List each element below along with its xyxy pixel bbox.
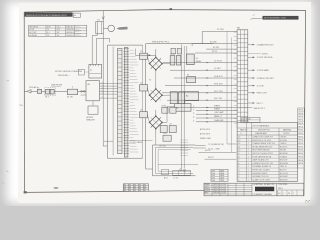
input power plug P1 xyxy=(27,90,31,94)
svg-text:5-12-66: 5-12-66 xyxy=(221,188,226,190)
svg-text:MS25036-1: MS25036-1 xyxy=(67,29,75,31)
bridge rectifier CR2 xyxy=(150,89,163,102)
svg-text:1: 1 xyxy=(248,160,249,162)
svg-text:-.2: -.2 xyxy=(253,15,255,17)
wire to TB1 xyxy=(174,77,237,79)
fuse F2 xyxy=(37,89,41,93)
svg-text:C2: C2 xyxy=(140,83,142,85)
svg-text:-5: -5 xyxy=(238,166,240,168)
reference designation table xyxy=(29,25,87,36)
wires inter xyxy=(135,49,137,56)
svg-text:MIL: MIL xyxy=(129,186,132,188)
TB1 stub xyxy=(248,69,253,71)
resistor block R1 xyxy=(187,77,196,83)
TB1 left stubs xyxy=(234,31,238,33)
svg-text:SIG COM: SIG COM xyxy=(214,98,222,100)
svg-text:PH C 115V: PH C 115V xyxy=(214,91,224,93)
svg-text:J1 MAIN PWR 115V: J1 MAIN PWR 115V xyxy=(257,44,275,47)
svg-text:DC PLUS: DC PLUS xyxy=(214,61,223,63)
svg-text:J2 SERVO 28V RET: J2 SERVO 28V RET xyxy=(257,78,275,80)
relay K1 xyxy=(187,54,195,65)
svg-text:J1 PH B MAIN: J1 PH B MAIN xyxy=(257,69,270,72)
enclosure B bottom lines xyxy=(146,168,153,170)
pin xyxy=(100,93,118,95)
inspection stamp block xyxy=(123,184,149,192)
wire to TB1 xyxy=(196,110,237,112)
svg-text:MIL: MIL xyxy=(144,186,147,188)
lower component cluster xyxy=(162,107,168,113)
svg-text:NOTES: UNLESS OTHERWISE: NOTES: UNLESS OTHERWISE xyxy=(55,71,83,73)
border tick xyxy=(170,8,173,10)
svg-text:FL1: FL1 xyxy=(46,97,49,99)
svg-text:SIZE D: SIZE D xyxy=(278,188,284,190)
stub y53.5 xyxy=(248,53,261,55)
svg-text:1N1184: 1N1184 xyxy=(280,150,286,152)
svg-text:1: 1 xyxy=(248,137,249,139)
svg-text:NOTE ASSEMBLY DWG: NOTE ASSEMBLY DWG xyxy=(264,17,286,20)
svg-text:MIL: MIL xyxy=(134,186,137,188)
pin xyxy=(100,85,118,87)
svg-text:P1 115V: P1 115V xyxy=(217,29,225,31)
svg-text:MIL: MIL xyxy=(124,186,127,188)
svg-text:5-12-66: 5-12-66 xyxy=(221,186,226,188)
svg-text:7-7: 7-7 xyxy=(305,199,310,203)
margin tick xyxy=(20,104,23,106)
terminal strip TB1 xyxy=(237,30,248,127)
svg-text:NO PER: NO PER xyxy=(242,121,249,123)
small cells row xyxy=(161,170,168,175)
svg-text:PWR CONT: PWR CONT xyxy=(257,93,268,95)
svg-text:1: 1 xyxy=(248,179,249,181)
svg-text:A7TB1 NO 6: A7TB1 NO 6 xyxy=(200,128,210,131)
module A4 xyxy=(170,92,177,104)
svg-text:R3 R4: R3 R4 xyxy=(162,105,167,107)
pin xyxy=(100,90,118,92)
smudge xyxy=(54,187,59,188)
svg-text:E1 GND: E1 GND xyxy=(210,41,217,43)
svg-text:-14: -14 xyxy=(238,137,240,139)
bottom module nested box outer xyxy=(153,145,196,176)
svg-text:SH: SH xyxy=(278,193,280,195)
svg-text:MIL: MIL xyxy=(134,188,137,190)
bridge rectifier CR3 xyxy=(150,116,163,129)
svg-text:A7 OSC: A7 OSC xyxy=(160,145,167,148)
svg-text:1: 1 xyxy=(248,150,249,152)
bus wires xyxy=(181,45,183,169)
pin xyxy=(100,88,118,90)
svg-text:1: 1 xyxy=(248,176,249,178)
svg-text:MATERIAL: MATERIAL xyxy=(283,129,291,132)
top-left classification banner xyxy=(25,12,73,16)
svg-text:DC RET: DC RET xyxy=(214,68,222,70)
sheet paper xyxy=(18,2,311,203)
svg-text:MIL: MIL xyxy=(139,186,142,188)
svg-text:GROMMET NYLON: GROMMET NYLON xyxy=(252,176,269,178)
left pins xyxy=(81,90,87,92)
svg-text:xx: xx xyxy=(74,15,76,17)
svg-text:TB20-10: TB20-10 xyxy=(280,166,287,168)
wire top CR3 xyxy=(155,110,157,116)
svg-text:MS24171: MS24171 xyxy=(280,146,288,148)
strip bottom exit wire xyxy=(104,140,113,142)
svg-text:A5: A5 xyxy=(186,95,188,98)
svg-text:1: 1 xyxy=(248,156,249,158)
nested box mid xyxy=(156,147,194,173)
aux relay K2 (dashed) xyxy=(78,69,84,75)
svg-text:MIL: MIL xyxy=(124,188,127,190)
svg-text:-13: -13 xyxy=(238,140,240,142)
svg-text:STRESS: STRESS xyxy=(204,188,210,190)
regulator A1 xyxy=(86,81,100,101)
wire input xyxy=(31,90,86,92)
wire to TB1 xyxy=(163,62,237,64)
wire to TB1 xyxy=(196,117,237,119)
lower-left module A2 xyxy=(88,106,98,114)
long wire x103 xyxy=(102,34,104,146)
svg-text:CODE 94580: CODE 94580 xyxy=(278,184,288,186)
svg-text:MIL: MIL xyxy=(134,184,137,186)
wire bottom CR3 xyxy=(155,129,157,134)
svg-text:MS21919: MS21919 xyxy=(280,179,288,181)
wire to TB1 xyxy=(162,92,237,94)
svg-text:NOTE 2: NOTE 2 xyxy=(262,54,268,56)
wire xyxy=(147,115,149,123)
svg-text:-1: -1 xyxy=(238,179,240,181)
inner enclosure line xyxy=(112,47,114,156)
svg-text:MS3106B: MS3106B xyxy=(75,35,81,37)
svg-text:+28V LAMP: +28V LAMP xyxy=(214,111,224,114)
wire xyxy=(147,57,149,64)
svg-text:-4: -4 xyxy=(238,170,240,172)
wire to TB1 xyxy=(196,121,237,123)
svg-text:CP41B1: CP41B1 xyxy=(280,137,287,139)
svg-text:SPARE: SPARE xyxy=(214,104,221,107)
svg-text:MIL: MIL xyxy=(144,188,147,190)
blower motor B1 xyxy=(108,25,115,32)
module A5 xyxy=(185,92,199,101)
black drawing-number cell xyxy=(255,187,274,192)
svg-text:1: 1 xyxy=(248,153,249,155)
svg-text:PANEL LT: PANEL LT xyxy=(214,115,223,118)
svg-text:C3: C3 xyxy=(140,110,142,112)
bridge rectifier CR1 xyxy=(150,57,163,70)
enclosure A right edge xyxy=(142,45,144,158)
svg-text:CHECK: CHECK xyxy=(204,186,209,188)
svg-text:SWITCH TOGGLE DPST: SWITCH TOGGLE DPST xyxy=(252,153,273,155)
nested box inner xyxy=(158,150,191,172)
svg-text:-3: -3 xyxy=(238,173,240,175)
svg-text:DESCRIPTION: DESCRIPTION xyxy=(258,130,270,132)
svg-text:-6: -6 xyxy=(238,163,240,165)
revision strip xyxy=(298,108,304,168)
TB1 stub xyxy=(248,56,253,58)
fuse F1 box xyxy=(96,22,104,34)
cap C1 xyxy=(140,53,148,59)
svg-text:SCHEMATIC DIAGRAM: SCHEMATIC DIAGRAM xyxy=(254,193,273,196)
svg-text:OF: OF xyxy=(288,193,290,195)
long risers left of TB1 xyxy=(226,31,228,144)
riser stubs for wire rows xyxy=(193,105,195,107)
svg-text:MS3102-8: MS3102-8 xyxy=(67,35,74,37)
svg-text:-7: -7 xyxy=(238,160,240,162)
svg-text:MIL: MIL xyxy=(139,188,142,190)
wire top CR1 xyxy=(155,49,157,57)
svg-text:P/O W1 CABLE: P/O W1 CABLE xyxy=(130,141,143,144)
svg-text:MS25237: MS25237 xyxy=(280,160,288,162)
svg-text:5-12-66: 5-12-66 xyxy=(221,191,226,193)
svg-text:-9: -9 xyxy=(238,153,240,155)
svg-text:MS35058: MS35058 xyxy=(280,153,288,155)
svg-text:J.WILSON: J.WILSON xyxy=(213,186,220,188)
terminal strip TB3 (dense) xyxy=(124,48,128,158)
svg-text:F02B250: F02B250 xyxy=(280,156,287,158)
svg-text:J.WILSON: J.WILSON xyxy=(213,191,220,193)
svg-text:M22759: M22759 xyxy=(280,170,287,172)
svg-text:C1: C1 xyxy=(140,51,142,53)
svg-text:1: 1 xyxy=(248,140,249,142)
svg-text:RECTIFIER BRIDGE: RECTIFIER BRIDGE xyxy=(252,150,270,152)
svg-text:C4 C5: C4 C5 xyxy=(170,53,175,55)
svg-text:VOLT: VOLT xyxy=(57,26,61,28)
svg-text:T-1: T-1 xyxy=(47,29,49,31)
svg-text:W3 P4: W3 P4 xyxy=(208,157,213,159)
svg-text:BRACKET: BRACKET xyxy=(87,119,96,122)
svg-text:TO J4 (SEE NOTE): TO J4 (SEE NOTE) xyxy=(208,144,224,146)
svg-text:F2: F2 xyxy=(37,87,39,89)
svg-text:-11: -11 xyxy=(238,146,240,148)
wire strip to CR1 xyxy=(136,54,156,56)
corner mark xyxy=(24,191,27,193)
svg-text:-8: -8 xyxy=(238,156,240,158)
svg-text:J.WILSON: J.WILSON xyxy=(213,188,220,190)
pin xyxy=(100,97,118,99)
enclosure box B xyxy=(146,44,214,169)
border frame xyxy=(24,10,305,13)
svg-text:J.WILSON: J.WILSON xyxy=(213,184,220,186)
terminal strip TB2 xyxy=(118,49,123,154)
svg-text:5-12-66: 5-12-66 xyxy=(221,193,226,195)
enclosure box A xyxy=(107,45,142,158)
svg-text:C7: C7 xyxy=(160,123,162,125)
svg-text:MIL: MIL xyxy=(139,184,142,186)
svg-text:MIL: MIL xyxy=(129,184,132,186)
svg-text:K-1: K-1 xyxy=(47,32,50,34)
title block xyxy=(204,183,304,196)
svg-text:QTY REQD: QTY REQD xyxy=(242,118,251,120)
transformer T1 xyxy=(89,64,102,78)
arrow label to motor xyxy=(117,27,128,30)
svg-text:S1 ON: S1 ON xyxy=(67,97,73,99)
svg-text:CHASSIS ASSY: CHASSIS ASSY xyxy=(255,132,268,135)
svg-text:SHIELD GND: SHIELD GND xyxy=(200,138,212,140)
svg-text:PWR SUPPLY PP-2: PWR SUPPLY PP-2 xyxy=(152,41,169,43)
module A6 xyxy=(175,104,191,112)
svg-text:-2: -2 xyxy=(238,176,240,178)
svg-text:MIL: MIL xyxy=(139,190,142,192)
contacts xyxy=(81,90,83,92)
svg-text:MIL: MIL xyxy=(129,190,132,192)
svg-text:J2 COM: J2 COM xyxy=(257,85,264,87)
svg-text:CONNECTOR RCPT 16C: CONNECTOR RCPT 16C xyxy=(252,163,274,165)
stub y44.6 xyxy=(248,44,253,46)
svg-text:MIL-I-631: MIL-I-631 xyxy=(280,173,288,175)
svg-text:PART NO: PART NO xyxy=(240,129,248,132)
svg-text:RC20GF: RC20GF xyxy=(280,140,287,142)
svg-text:MIL: MIL xyxy=(144,184,147,186)
top-right banner xyxy=(251,18,263,19)
svg-text:PH A 115V: PH A 115V xyxy=(214,75,223,78)
wire xyxy=(147,88,149,95)
wire to TB1 xyxy=(196,113,237,115)
svg-text:-12: -12 xyxy=(238,143,240,145)
svg-text:J.WILSON: J.WILSON xyxy=(213,193,220,195)
svg-text:DESIGN: DESIGN xyxy=(204,191,210,193)
cap C2 xyxy=(140,85,148,91)
svg-text:A2 MTG: A2 MTG xyxy=(87,116,94,119)
svg-text:MIL: MIL xyxy=(144,190,147,192)
wire top CR2 xyxy=(155,83,157,89)
svg-text:A7TB1 NO 8: A7TB1 NO 8 xyxy=(200,132,210,135)
svg-text:CR5: CR5 xyxy=(164,133,167,135)
dashed filter enclosure xyxy=(45,88,56,96)
svg-text:R1: R1 xyxy=(187,75,189,77)
svg-text:1: 1 xyxy=(248,143,249,145)
cap block C4/C5 xyxy=(170,56,175,66)
svg-text:TF4RX0: TF4RX0 xyxy=(280,143,287,145)
svg-text:MIL: MIL xyxy=(124,190,127,192)
svg-text:A6: A6 xyxy=(176,107,178,110)
svg-text:7075-T6: 7075-T6 xyxy=(283,133,289,135)
svg-text:LIST OF MATERIALS: LIST OF MATERIALS xyxy=(252,124,270,127)
switch S1 xyxy=(67,89,77,94)
pin xyxy=(100,82,118,84)
small caps above C4 xyxy=(171,48,176,54)
svg-text:C8: C8 xyxy=(170,123,172,125)
svg-text:SPECIFIED —: SPECIFIED — xyxy=(58,75,71,77)
wires down to T1 xyxy=(91,36,93,65)
svg-text:1: 1 xyxy=(248,166,249,168)
svg-text:PH B 115V: PH B 115V xyxy=(214,84,224,86)
svg-text:SPARE: SPARE xyxy=(214,108,221,111)
TB1 stub xyxy=(248,85,253,87)
svg-text:E2 28V: E2 28V xyxy=(213,47,220,49)
svg-text:MIL: MIL xyxy=(124,184,127,186)
approvals block xyxy=(211,169,228,181)
svg-text:K1: K1 xyxy=(196,58,198,60)
TB1 stub xyxy=(248,102,253,104)
svg-text:5-12-66: 5-12-66 xyxy=(221,184,226,186)
cap C3 xyxy=(140,112,148,118)
svg-text:SLEEVING INSUL: SLEEVING INSUL xyxy=(252,173,267,175)
svg-text:TO J5 — GND: TO J5 — GND xyxy=(208,149,220,151)
svg-text:RESISTOR 4.7K 1/2W: RESISTOR 4.7K 1/2W xyxy=(252,140,271,142)
svg-text:A7J1: A7J1 xyxy=(164,176,168,179)
wire to TB1 xyxy=(167,99,237,101)
TB1 stub xyxy=(248,92,253,94)
svg-text:-1: -1 xyxy=(240,133,242,135)
svg-text:J1 115V 3PH PH A: J1 115V 3PH PH A xyxy=(257,56,274,59)
wire to TB1 xyxy=(176,106,237,108)
svg-text:PNL LT: PNL LT xyxy=(257,103,264,105)
svg-text:1: 1 xyxy=(248,173,249,175)
wire riser x103 from top border xyxy=(102,11,104,22)
svg-text:CHAS GND: CHAS GND xyxy=(214,119,224,122)
wire CR1 bottom to CR2 top xyxy=(155,70,157,83)
strip pin labels xyxy=(130,50,134,52)
svg-text:T2: T2 xyxy=(149,80,151,82)
wire to TB1 xyxy=(165,85,237,87)
svg-text:MS35489: MS35489 xyxy=(280,176,288,178)
svg-text:-10: -10 xyxy=(238,150,240,152)
svg-text:E3 5V: E3 5V xyxy=(212,51,218,53)
svg-text:1: 1 xyxy=(248,170,249,172)
top step wires xyxy=(216,30,237,32)
svg-text:1: 1 xyxy=(248,146,249,148)
filter FL1 xyxy=(46,89,50,94)
svg-text:REF DESIG: REF DESIG xyxy=(30,26,39,28)
svg-text:REPRODUCTION IN ACCORDANCE WIT: REPRODUCTION IN ACCORDANCE WITH xyxy=(26,14,67,17)
wire to TB1 xyxy=(170,69,237,71)
svg-text:MIL: MIL xyxy=(129,188,132,190)
svg-text:SEE NOTE 3: SEE NOTE 3 xyxy=(254,108,265,110)
svg-text:1 2 3 4: 1 2 3 4 xyxy=(173,177,178,179)
parts list table xyxy=(237,123,297,182)
svg-text:MIL: MIL xyxy=(134,190,137,192)
svg-text:1: 1 xyxy=(248,163,249,165)
TB1 stub xyxy=(248,77,253,79)
